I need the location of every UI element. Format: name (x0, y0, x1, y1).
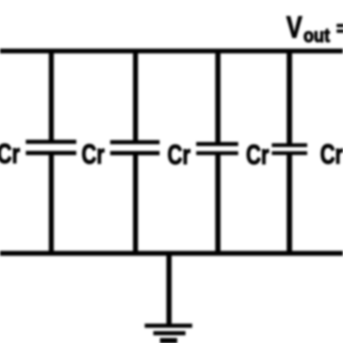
wire: branch 4 lower segment (287, 153, 292, 253)
wire: ground lead (166, 251, 171, 326)
wire: branch 2 upper segment (133, 49, 138, 142)
svg-text:Cr: Cr (82, 138, 105, 169)
wire: branch 1 lower segment (49, 153, 54, 253)
svg-text:out: out (303, 25, 330, 47)
capacitor Cr #2 (110, 142, 159, 153)
wire: branch 3 lower segment (215, 153, 220, 253)
wire: branch 2 lower segment (133, 153, 138, 253)
capacitor Cr #1 (26, 142, 77, 153)
wire: branch 1 upper segment (49, 49, 54, 142)
wire: top rail (Vout net) (0, 49, 343, 54)
svg-text:V: V (286, 9, 302, 44)
svg-text:Cr: Cr (0, 138, 20, 169)
wire: branch 3 upper segment (215, 49, 220, 144)
wire: bottom rail (0, 251, 343, 256)
svg-text:Cr: Cr (167, 139, 190, 170)
wire: branch 4 upper segment (287, 49, 292, 145)
ground (145, 326, 193, 341)
svg-text:Cr: Cr (246, 139, 269, 170)
capacitor Cr #3 (196, 144, 238, 153)
capacitor Cr #4 (272, 145, 307, 153)
svg-text:Cr: Cr (320, 139, 343, 170)
node Vout: "=" (cut off at right edge) (337, 24, 343, 33)
